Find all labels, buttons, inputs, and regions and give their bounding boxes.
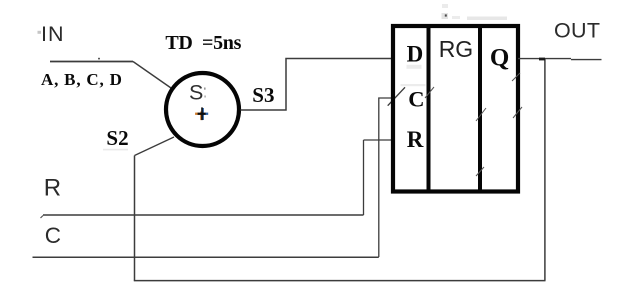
svg-text:S2: S2	[106, 126, 128, 150]
faint marks below D pin label	[407, 65, 422, 69]
adder U1 plus sign blue fringe	[205, 113, 208, 115]
jog tick on inner line 1	[425, 87, 434, 98]
wire feedback vertical up to OUT	[544, 59, 546, 281]
svg-text:RG: RG	[439, 36, 474, 62]
wire R stub into block	[364, 139, 394, 141]
jog tick on right edge	[513, 107, 522, 118]
hook at R wire start	[41, 216, 44, 219]
svg-text:Q: Q	[490, 45, 509, 72]
wire S3 adder to D input	[241, 59, 394, 111]
register inner line 1	[427, 24, 431, 194]
faint mark left of IN	[38, 31, 42, 34]
adder U1 plus sign black core	[198, 113, 206, 115]
stray dot above IN wire	[98, 58, 100, 60]
svg-text:R: R	[44, 175, 61, 202]
svg-text:OUT: OUT	[554, 19, 600, 43]
jog tick on right edge below Q	[512, 73, 520, 81]
adder U1 plus sign orange fringe	[195, 113, 198, 115]
faint colon artifact right of S	[204, 88, 206, 90]
wire R vertical up	[363, 140, 365, 215]
svg-text:C: C	[408, 86, 424, 111]
svg-text:D: D	[407, 41, 424, 66]
register inner line 2	[478, 24, 482, 194]
wire C horizontal	[33, 256, 379, 258]
wire R horizontal	[43, 214, 364, 216]
svg-text:S3: S3	[252, 83, 274, 107]
wire feedback bottom horizontal	[134, 280, 546, 282]
wire OUT from Q segment 1	[518, 58, 571, 60]
wire S2 vertical down	[134, 156, 136, 281]
jog tick on inner line 2 lower	[476, 167, 484, 176]
adder U1 circle	[166, 73, 239, 146]
svg-text:IN: IN	[41, 22, 65, 46]
dynamic input slash at C	[388, 87, 405, 105]
svg-text:R: R	[407, 127, 424, 152]
wire IN horizontal	[50, 61, 133, 63]
junction nub on OUT wire	[539, 58, 545, 61]
wire IN diagonal to adder	[133, 62, 171, 89]
svg-text:C: C	[45, 223, 61, 248]
wire S2 diagonal from adder	[135, 137, 175, 156]
svg-text:A, B, C, D: A, B, C, D	[41, 70, 123, 89]
wire OUT from Q segment 2	[571, 59, 602, 61]
jog tick on inner line 2	[476, 108, 486, 121]
svg-text:S: S	[189, 81, 203, 105]
register RG block outline	[393, 26, 518, 192]
wire C vertical up	[379, 98, 393, 257]
faint smudge under S2	[103, 149, 128, 151]
faint smudge above block	[442, 4, 448, 8]
svg-text:TD =5ns: TD =5ns	[165, 32, 241, 54]
